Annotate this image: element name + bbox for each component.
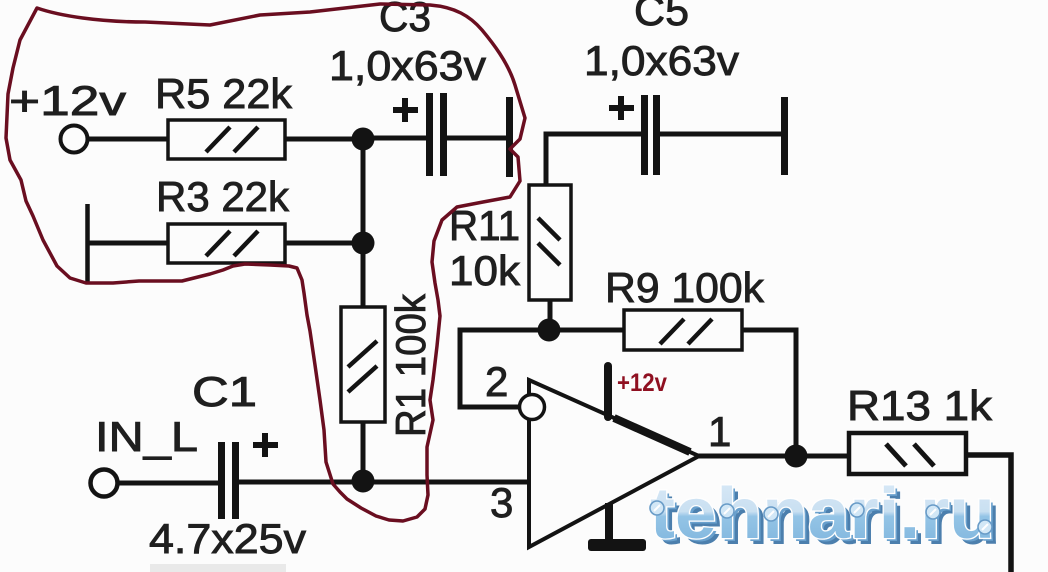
- svg-text:C1: C1: [192, 368, 257, 415]
- red annotation loop: [6, 4, 525, 521]
- wire C1 to node C to pin 3: [239, 480, 529, 485]
- wire R3 to node B: [285, 241, 363, 246]
- capacitor C5 plus sign: [609, 96, 634, 120]
- op-amp power pin +12v line: [604, 366, 612, 417]
- resistor R3: [168, 224, 285, 263]
- watermark tehnari.ru: [650, 474, 1001, 560]
- wire node A down to node B and R1: [361, 139, 366, 308]
- wire R11 to node D: [548, 300, 553, 330]
- svg-text:R9 100k: R9 100k: [605, 264, 765, 311]
- junction node D: [538, 319, 561, 342]
- resistor R5: [168, 120, 285, 159]
- ground bar: [588, 539, 646, 551]
- svg-text:R13 1k: R13 1k: [847, 382, 993, 429]
- wire C5 to terminal bar: [660, 132, 781, 137]
- svg-text:+12v: +12v: [617, 369, 667, 397]
- wire R1 to node C: [361, 422, 366, 481]
- op-amp pin 2 bubble: [520, 395, 545, 420]
- junction node B: [352, 232, 375, 255]
- svg-text:R1 100k: R1 100k: [387, 293, 434, 437]
- svg-text:tehnari.ru: tehnari.ru: [650, 474, 995, 554]
- svg-text:3: 3: [490, 479, 513, 526]
- op-amp U1: [529, 380, 699, 547]
- svg-text:R11: R11: [449, 202, 520, 249]
- wire node D to R9: [549, 328, 626, 333]
- svg-text:IN_L: IN_L: [95, 413, 198, 460]
- junction output node: [785, 445, 808, 468]
- feedback wire node D to pin 2: [460, 330, 549, 407]
- terminal bar left of R3: [85, 204, 90, 283]
- faint bottom artifact: [150, 564, 286, 572]
- wire R5 to node A: [285, 137, 363, 142]
- capacitor C5: [641, 95, 660, 175]
- svg-text:1,0x63v: 1,0x63v: [584, 37, 739, 84]
- wire R9 right to output node: [742, 330, 796, 456]
- op-amp ground lead: [605, 503, 613, 541]
- svg-text:4.7x25v: 4.7x25v: [149, 515, 306, 562]
- svg-text:1: 1: [708, 408, 731, 455]
- wire R13 to right edge drop: [966, 455, 1011, 572]
- wire C5 left lead and drop to R11: [546, 134, 641, 185]
- capacitor C3 label: [329, 0, 486, 89]
- capacitor C3 plus sign: [393, 98, 418, 122]
- terminal bar right of C3: [506, 97, 513, 177]
- input terminal circle: [91, 470, 118, 497]
- wire op-amp output to R13: [697, 454, 851, 459]
- junction node A: [352, 128, 375, 151]
- op-amp thick diagonal overdraw: [614, 418, 690, 452]
- resistor R11 labels: [449, 202, 521, 294]
- svg-text:+12v: +12v: [9, 77, 126, 124]
- resistor R9: [624, 310, 742, 350]
- svg-text:R3 22k: R3 22k: [156, 173, 290, 220]
- wire C3 to terminal bar: [447, 136, 506, 141]
- svg-text:C5: C5: [634, 0, 689, 34]
- capacitor C3: [426, 93, 447, 176]
- resistor R11: [529, 185, 571, 300]
- terminal bar right of C5: [781, 97, 788, 175]
- svg-text:2: 2: [485, 358, 508, 405]
- capacitor C5 label: [584, 0, 739, 84]
- junction node C: [352, 470, 375, 493]
- svg-text:R5 22k: R5 22k: [155, 70, 293, 117]
- capacitor C1: [218, 442, 239, 519]
- wire terminal to C1: [118, 481, 218, 486]
- svg-text:10k: 10k: [449, 247, 521, 294]
- wire node A to C3: [363, 136, 426, 141]
- svg-text:1,0x63v: 1,0x63v: [329, 42, 486, 89]
- node +12V terminal circle: [61, 126, 88, 153]
- wire terminal to R5: [88, 137, 170, 142]
- resistor R1 label (rotated): [387, 293, 434, 437]
- capacitor C1 plus sign: [253, 433, 278, 457]
- resistor R1: [341, 307, 385, 422]
- resistor R13: [849, 433, 966, 474]
- wire bar to R3: [87, 241, 170, 246]
